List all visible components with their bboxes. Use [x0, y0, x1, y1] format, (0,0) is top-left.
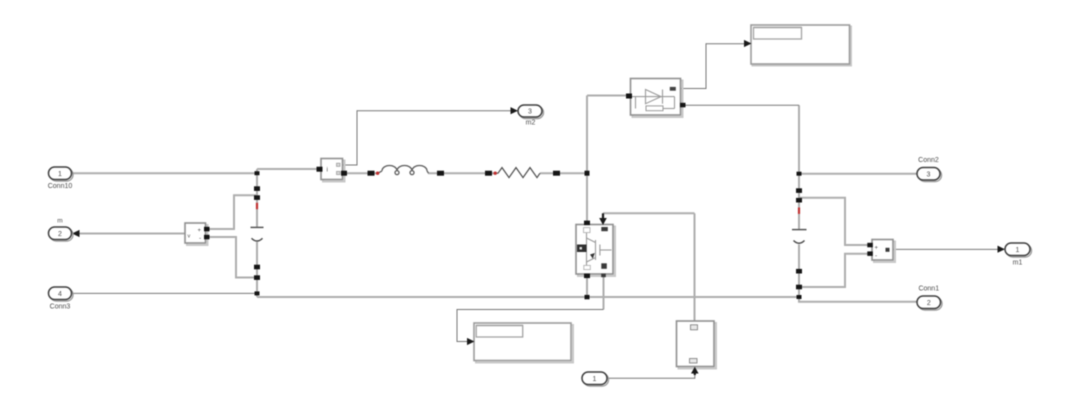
wire series branch segment A	[346, 172, 378, 174]
junction squares right column	[796, 172, 802, 299]
scope Scope1 (top right)	[751, 25, 851, 66]
wire bottom rail	[257, 296, 799, 298]
svg-text:-: -	[199, 235, 201, 242]
wire left vmeas plus branch	[206, 195, 258, 229]
wire right column vertical bottom	[798, 245, 800, 298]
wire right column vertical top	[798, 105, 800, 229]
red polarity mark right capacitor	[798, 208, 800, 214]
IGBT block Q1	[576, 225, 615, 277]
port 1 m1 (right)	[1005, 243, 1032, 266]
wire collector node vertical	[586, 96, 588, 221]
voltage measurement block U3 (right)	[872, 240, 895, 263]
port 4 Conn3	[49, 287, 74, 310]
wire Conn2 stub	[799, 173, 917, 175]
port 1 Conn10	[48, 167, 73, 190]
wire Conn10 to left DC node	[72, 172, 257, 174]
wire right vmeas output to port m1	[894, 248, 999, 250]
capacitor C2 plates (right DC bus capacitor)	[792, 230, 807, 244]
capacitor C1 plates (left DC bus capacitor)	[251, 227, 264, 241]
port 3 Conn2 (right)	[917, 157, 942, 182]
red polarity mark left capacitor	[256, 203, 258, 209]
series branch connector squares	[368, 171, 590, 300]
wire IGBT m down	[603, 276, 605, 310]
svg-text:m: m	[57, 217, 62, 224]
diode block D1	[631, 79, 683, 118]
svg-text:1: 1	[58, 171, 62, 178]
junction squares left column	[254, 171, 260, 295]
wire top rail to current measurement	[257, 168, 318, 170]
svg-text:3: 3	[528, 109, 532, 116]
inductor L1 coil	[378, 165, 429, 174]
svg-text:Conn2: Conn2	[918, 157, 939, 164]
port square D1 anode	[626, 94, 632, 99]
wire diode m to scope	[681, 44, 745, 89]
wire port 1 to gate block	[608, 375, 695, 379]
svg-text:+: +	[198, 228, 202, 234]
port square Q1 emitter bottom	[584, 274, 590, 279]
wire gate vertical to gate block	[694, 213, 696, 321]
arrow into Scope1	[744, 40, 752, 47]
gate block G1 (pulse subsystem)	[677, 321, 717, 369]
port square U2 plus	[204, 227, 210, 232]
port square U1 left	[317, 167, 323, 172]
svg-text:m1: m1	[1013, 259, 1023, 266]
port square U2 minus	[204, 235, 210, 240]
svg-text:1: 1	[1016, 247, 1020, 254]
red terminal dot resistor	[494, 172, 497, 175]
svg-text:1: 1	[593, 376, 597, 383]
wire gate horizontal	[603, 212, 695, 214]
junction emitter-rail	[585, 295, 590, 299]
svg-text:-: -	[875, 253, 877, 260]
wire left vmeas minus branch	[206, 237, 258, 278]
gate arrow into Q1	[599, 213, 607, 225]
voltage measurement block U2 (left)	[185, 223, 208, 245]
svg-text:Conn10: Conn10	[48, 183, 73, 190]
svg-text:i: i	[327, 167, 328, 174]
port square Q1 collector top	[584, 221, 590, 226]
wire IGBT emitter to rail	[586, 276, 588, 297]
wire diode cathode to right column	[685, 104, 800, 106]
port square U1 right	[341, 171, 347, 176]
port square U3 plus	[867, 243, 873, 248]
svg-text:v: v	[188, 234, 191, 240]
scope Scope2 (bottom left)	[474, 323, 573, 363]
wire Conn1 stub	[799, 297, 917, 302]
red terminal dot inductor	[376, 172, 379, 175]
svg-text:2: 2	[927, 300, 931, 307]
port square U3 minus	[867, 251, 873, 256]
port 2 m	[49, 217, 74, 241]
wire right vmeas plus branch	[799, 198, 868, 245]
arrow into port 3	[511, 107, 519, 114]
port square Q1 m bottom	[601, 274, 606, 278]
port 3 m2	[518, 105, 544, 126]
wire left column top vertical	[256, 169, 258, 227]
svg-text:Conn3: Conn3	[50, 303, 71, 310]
arrow into port 2	[72, 230, 80, 237]
svg-text:Conn1: Conn1	[918, 285, 939, 292]
port arrow G1 bottom input	[691, 367, 699, 375]
wire left column bottom vertical	[256, 242, 258, 297]
wire node to diode anode	[587, 95, 628, 97]
port 1 gate (bottom)	[582, 372, 609, 386]
wire series branch segment C	[540, 172, 587, 174]
svg-text:4: 4	[58, 291, 62, 298]
svg-text:+: +	[875, 246, 879, 252]
wire IGBT m to scope	[457, 310, 604, 342]
wire right vmeas minus branch	[799, 254, 868, 287]
current measurement block U1	[321, 159, 345, 182]
wire series branch segment B	[428, 172, 494, 174]
resistor R1 zigzag	[494, 168, 540, 178]
svg-text:2: 2	[58, 231, 62, 238]
wire current meas signal to port m2	[343, 111, 512, 165]
svg-text:m2: m2	[526, 119, 536, 126]
port square D1 cathode	[680, 103, 686, 108]
arrow into port m1	[998, 246, 1006, 253]
arrow into Scope2	[467, 338, 475, 345]
port 2 Conn1 (right)	[917, 285, 942, 310]
wire Conn3 to left DC node	[72, 292, 258, 294]
svg-text:3: 3	[927, 171, 931, 178]
wire vmeas output to port 2	[80, 233, 186, 235]
